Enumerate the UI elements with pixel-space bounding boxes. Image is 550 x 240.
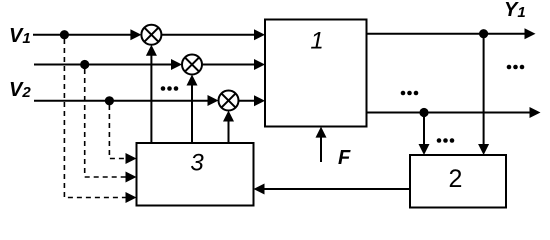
svg-text:3: 3 [190,150,204,177]
svg-text:Y1: Y1 [504,0,526,21]
svg-text:1: 1 [310,28,323,55]
svg-text:2: 2 [449,165,463,193]
svg-text:F: F [338,147,351,169]
